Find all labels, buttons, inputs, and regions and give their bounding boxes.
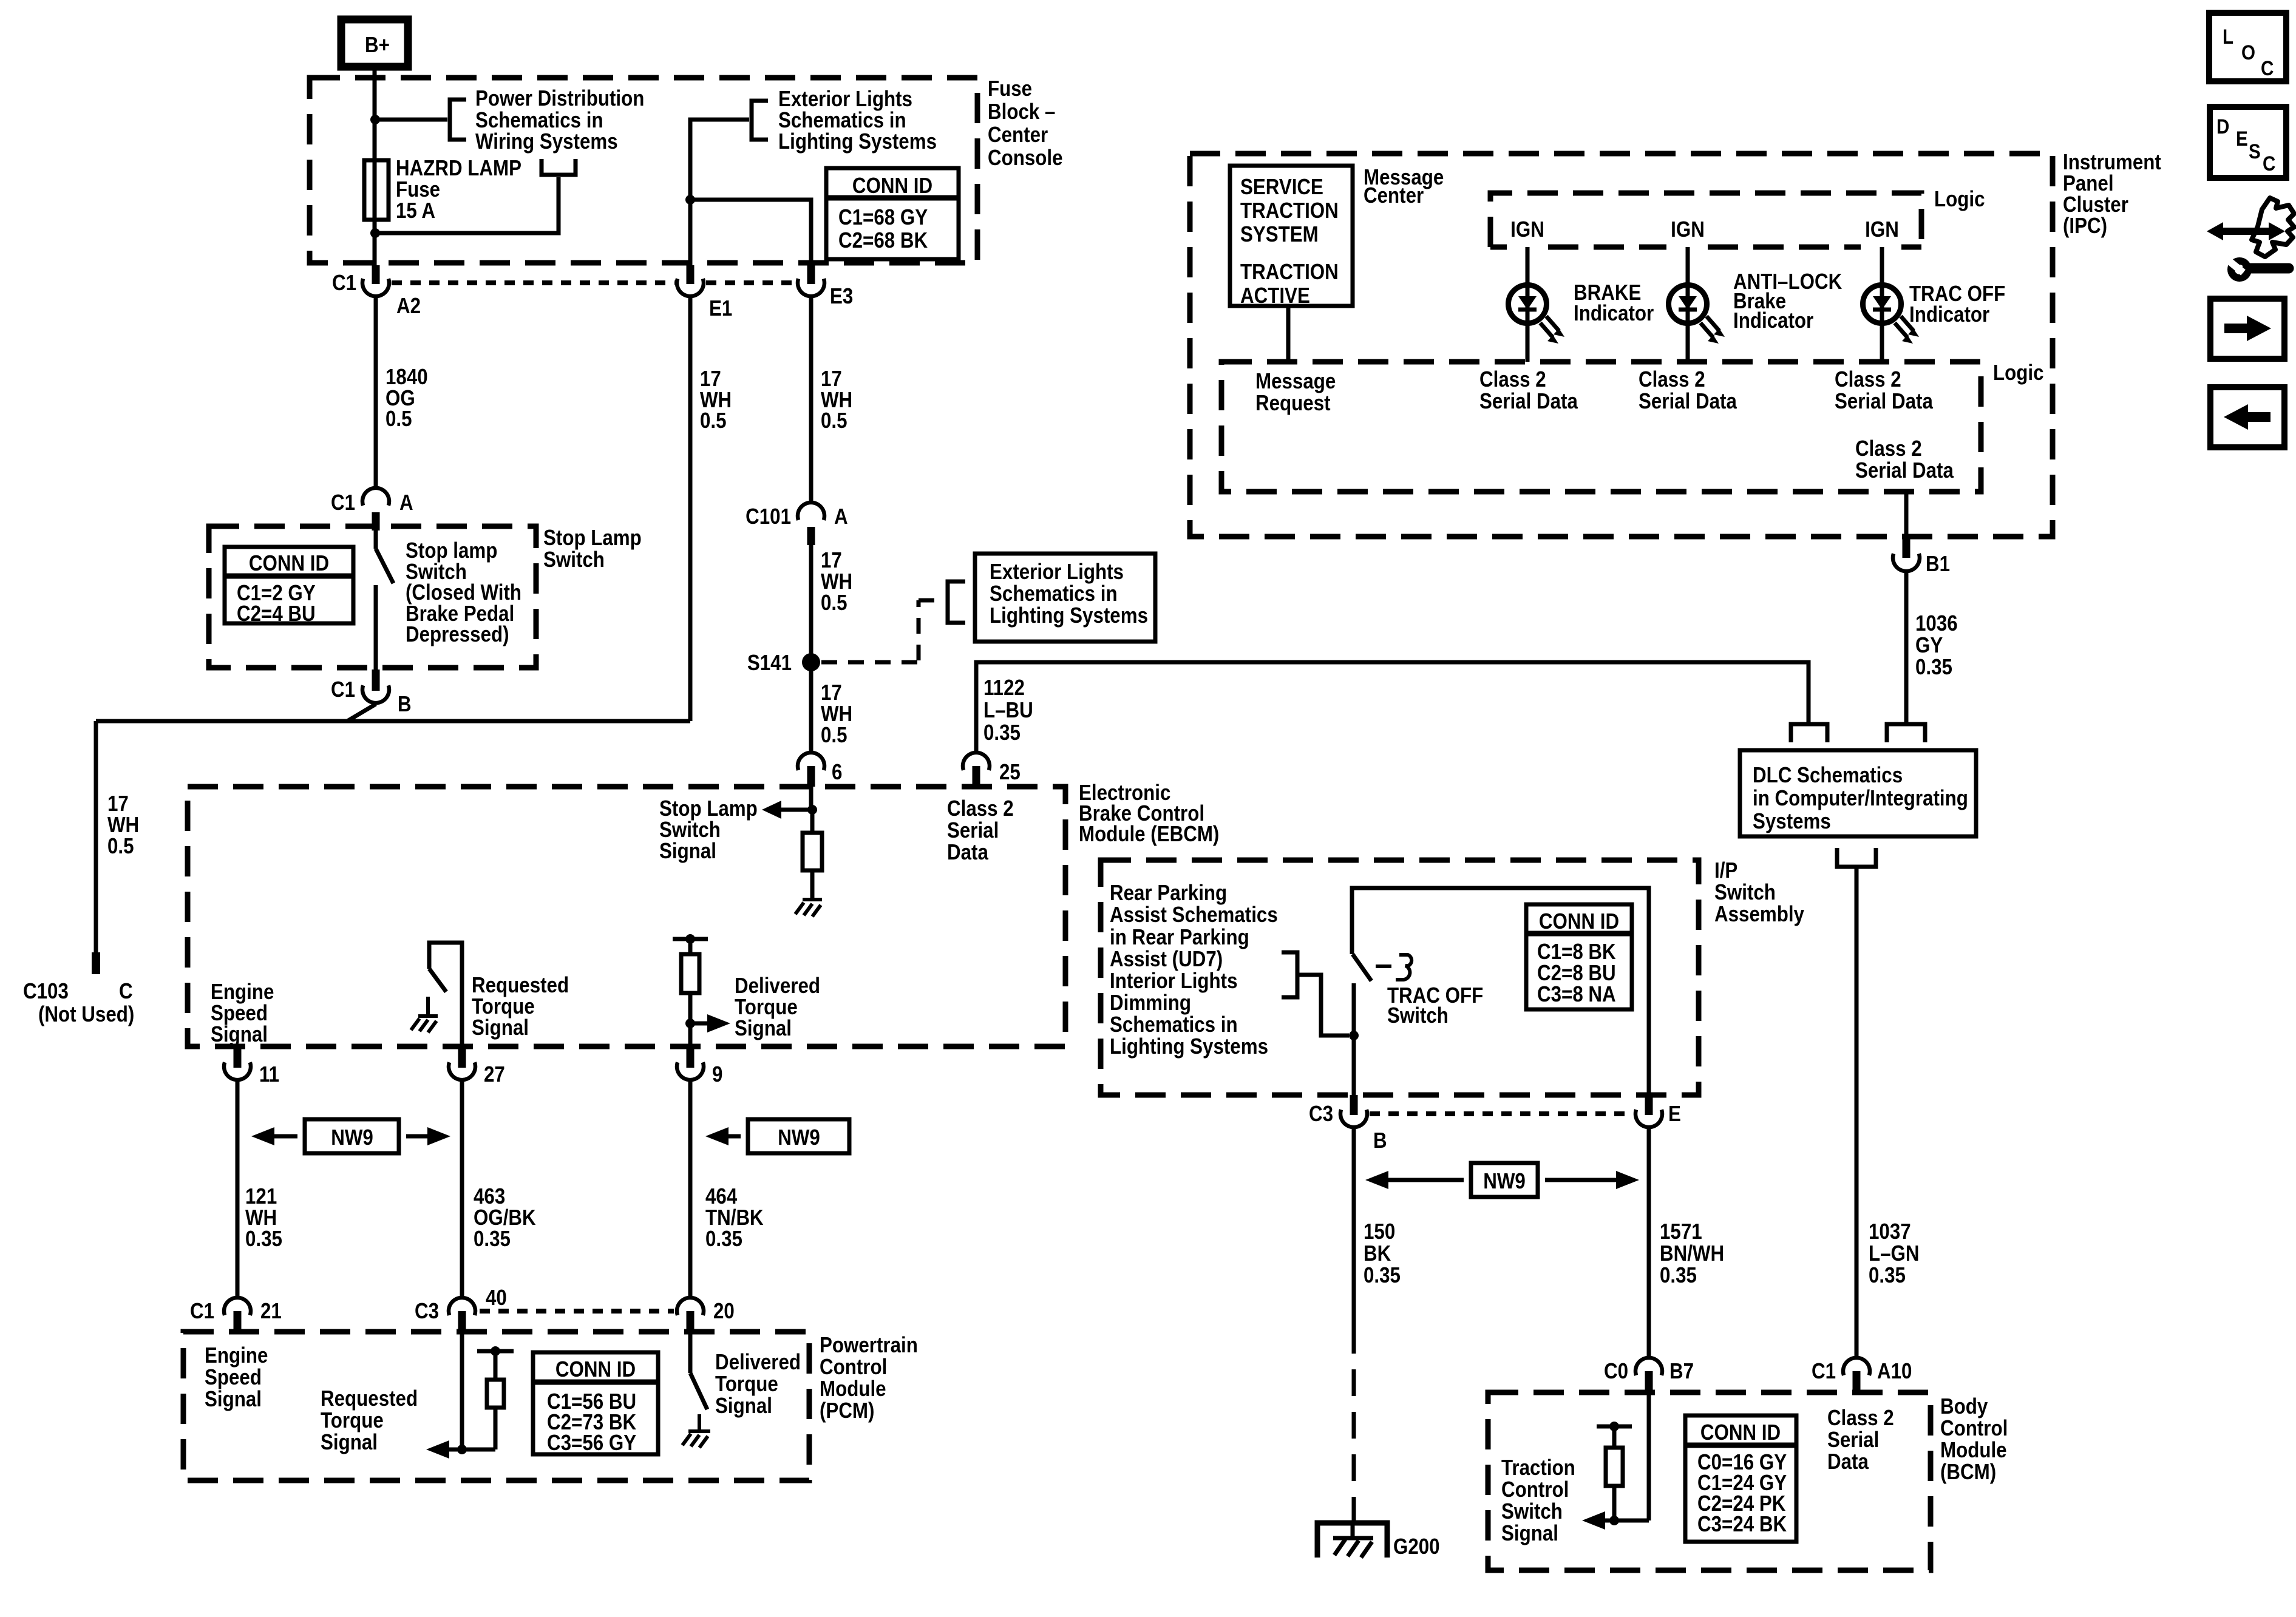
svg-text:G200: G200 <box>1393 1534 1440 1559</box>
svg-text:(IPC): (IPC) <box>2063 214 2107 239</box>
trac off switch blade <box>1353 954 1371 981</box>
label Engine Speed Signal (EBCM) <box>211 980 274 1047</box>
svg-text:9: 9 <box>712 1062 722 1087</box>
connector IPC pin B1 <box>1893 537 1950 577</box>
wire 463 OG/BK pin 27 to PCM 40 <box>460 1081 464 1297</box>
svg-text:Serial Data: Serial Data <box>1855 458 1954 483</box>
svg-text:Module: Module <box>820 1377 886 1402</box>
svg-text:Switch: Switch <box>1714 880 1776 905</box>
svg-text:0.35: 0.35 <box>1915 655 1952 680</box>
label 121 WH 0.35 <box>245 1184 282 1252</box>
label Delivered Torque Signal (EBCM) <box>735 974 820 1041</box>
svg-text:Schematics in: Schematics in <box>990 581 1118 606</box>
I/P switch assembly dashed box <box>1101 860 1699 1095</box>
svg-text:C1: C1 <box>190 1299 214 1324</box>
svg-text:0.35: 0.35 <box>1660 1263 1697 1288</box>
label 1037 L-GN 0.35 <box>1869 1219 1920 1288</box>
wire 17 WH C101 to splice S141 and pin 6 <box>809 545 813 751</box>
svg-text:Interior Lights: Interior Lights <box>1110 969 1238 994</box>
svg-text:C1: C1 <box>331 677 355 702</box>
svg-text:A: A <box>399 490 413 515</box>
bracket DLC top left <box>1791 724 1827 742</box>
splice S141 <box>747 651 820 676</box>
svg-text:C1: C1 <box>1812 1359 1836 1384</box>
svg-text:Wiring Systems: Wiring Systems <box>475 129 618 154</box>
svg-text:C1: C1 <box>332 271 356 296</box>
svg-text:27: 27 <box>484 1062 505 1087</box>
delivered torque switch PCM <box>690 1332 707 1409</box>
label 17 WH 0.5 (C103 wire) <box>107 792 139 859</box>
dotted connector row C1 to E1 <box>392 280 674 285</box>
svg-text:E3: E3 <box>830 284 853 309</box>
svg-text:NW9: NW9 <box>778 1125 820 1150</box>
svg-text:C1: C1 <box>331 490 355 515</box>
svg-text:NW9: NW9 <box>331 1125 373 1150</box>
label 1036 GY 0.35 <box>1915 611 1958 680</box>
connector PCM pin 20 <box>677 1298 735 1332</box>
svg-text:Power Distribution: Power Distribution <box>475 86 644 111</box>
ground requested torque contact <box>411 997 438 1032</box>
svg-text:1036: 1036 <box>1915 611 1958 636</box>
svg-text:IGN: IGN <box>1865 217 1899 242</box>
bracket exterior lights reference (middle) <box>948 581 965 623</box>
svg-text:SYSTEM: SYSTEM <box>1240 222 1319 247</box>
svg-text:0.35: 0.35 <box>983 720 1021 745</box>
arrow delivered torque signal <box>690 1014 730 1032</box>
svg-text:0.5: 0.5 <box>821 408 847 433</box>
svg-text:Data: Data <box>947 840 988 865</box>
label 150 BK 0.35 <box>1364 1219 1401 1288</box>
svg-text:L–GN: L–GN <box>1869 1241 1920 1266</box>
label Class 2 Serial Data (EBCM) <box>947 796 1014 865</box>
bracket DLC bottom <box>1837 848 1876 867</box>
svg-text:O: O <box>2241 41 2255 64</box>
svg-text:B: B <box>1373 1128 1387 1153</box>
connector EBCM pin 27 <box>449 1046 505 1087</box>
svg-text:0.5: 0.5 <box>107 834 134 859</box>
connector I/P pin E <box>1635 1095 1681 1127</box>
connector EBCM pin 25 <box>963 753 1021 787</box>
CONN ID table I/P switch <box>1526 904 1632 1009</box>
connector PCM C1 pin 21 <box>190 1298 282 1332</box>
node junction on B+ feed <box>370 115 380 124</box>
svg-text:Lighting Systems: Lighting Systems <box>778 129 937 154</box>
svg-text:Module: Module <box>1940 1438 2007 1463</box>
svg-text:150: 150 <box>1364 1219 1395 1244</box>
fuse block - center console dashed box <box>310 78 977 263</box>
svg-text:Center: Center <box>1364 183 1424 208</box>
wire 1037 L-GN DLC to A10 <box>1855 867 1859 1357</box>
svg-text:Class 2: Class 2 <box>1479 367 1546 392</box>
trac off switch momentary contact <box>1376 955 1411 980</box>
svg-text:Traction: Traction <box>1501 1456 1575 1480</box>
label Rear Parking Assist Schematics <box>1110 881 1278 1059</box>
svg-text:Torque: Torque <box>715 1372 778 1397</box>
svg-text:Control: Control <box>1940 1416 2008 1441</box>
svg-text:Lighting Systems: Lighting Systems <box>1110 1034 1268 1059</box>
wire 1840 OG from A2 down to C1 A <box>374 297 378 487</box>
svg-text:Signal: Signal <box>211 1022 268 1047</box>
svg-text:S: S <box>2249 140 2261 163</box>
stop lamp switch blade <box>376 531 393 670</box>
lower logic dashed box <box>1221 362 1981 492</box>
label BRAKE Indicator <box>1574 280 1654 326</box>
svg-text:C: C <box>2261 56 2274 80</box>
wire 1036 GY B1 to DLC <box>1904 572 1909 722</box>
label Logic (lower) <box>1993 361 2043 385</box>
svg-text:A2: A2 <box>396 294 421 319</box>
connector EBCM pin 11 <box>224 1046 279 1087</box>
B+ battery feed box <box>341 19 408 67</box>
label 1840 OG 0.5 <box>385 365 428 432</box>
svg-text:Speed: Speed <box>205 1365 262 1390</box>
bracket exterior lights reference <box>752 101 768 140</box>
svg-text:Control: Control <box>1501 1477 1569 1502</box>
wire E1 up to exterior lights bracket <box>690 120 749 265</box>
wire 17 WH down to C103 <box>92 721 100 974</box>
NW9 harness box left <box>251 1119 450 1153</box>
svg-text:Indicator: Indicator <box>1574 301 1654 326</box>
EBCM dashed box <box>188 787 1065 1046</box>
connector EBCM pin 6 <box>798 753 842 787</box>
svg-text:1571: 1571 <box>1660 1219 1702 1244</box>
label Stop lamp Switch (Closed With Brake Pedal Depressed) <box>406 538 521 647</box>
svg-text:C101: C101 <box>746 504 791 529</box>
wire 464 TN/BK pin 9 to PCM 20 <box>688 1081 693 1297</box>
node junction stop lamp signal <box>807 805 817 815</box>
ground delivered torque contact <box>682 1414 710 1448</box>
label Message Center <box>1364 165 1444 208</box>
svg-text:C3=24 BK: C3=24 BK <box>1697 1512 1787 1537</box>
node junction below fuse <box>370 228 380 238</box>
IPC dashed box <box>1190 154 2053 537</box>
svg-text:D: D <box>2216 115 2229 138</box>
svg-text:Class 2: Class 2 <box>1827 1406 1894 1431</box>
label IGN 3 <box>1865 217 1899 242</box>
svg-text:CONN ID: CONN ID <box>249 551 329 576</box>
svg-text:B+: B+ <box>365 33 390 58</box>
svg-text:Class 2: Class 2 <box>1835 367 1901 392</box>
wire below fuse to feed bracket <box>375 177 559 233</box>
svg-text:CONN ID: CONN ID <box>852 174 932 198</box>
CONN ID table fuse block <box>826 168 959 259</box>
svg-text:Signal: Signal <box>472 1015 529 1040</box>
svg-text:Serial Data: Serial Data <box>1479 389 1578 414</box>
label Fuse Block - Center Console <box>988 76 1063 171</box>
svg-text:S141: S141 <box>747 651 792 676</box>
svg-text:Serial: Serial <box>947 818 999 843</box>
svg-text:Console: Console <box>988 146 1063 171</box>
label 1122 L-BU 0.35 <box>983 676 1033 745</box>
label Power Distribution Schematics in Wiring Systems <box>475 86 644 154</box>
svg-text:(PCM): (PCM) <box>820 1398 874 1423</box>
wire 17 WH horizontal run <box>96 719 690 724</box>
svg-text:Switch: Switch <box>1501 1499 1563 1524</box>
svg-text:L–BU: L–BU <box>983 698 1033 723</box>
svg-text:Engine: Engine <box>205 1343 268 1368</box>
wire 1122 L-BU from pin 25 up and right to DLC <box>976 662 1809 751</box>
svg-text:ACTIVE: ACTIVE <box>1240 283 1310 308</box>
svg-text:Signal: Signal <box>205 1387 262 1412</box>
svg-text:IGN: IGN <box>1510 217 1544 242</box>
svg-text:C3: C3 <box>1309 1102 1333 1127</box>
svg-text:Body: Body <box>1940 1394 1988 1419</box>
svg-text:CONN ID: CONN ID <box>555 1357 636 1382</box>
sidebar hand and wrench icon <box>2207 198 2294 278</box>
svg-text:Logic: Logic <box>1993 361 2043 385</box>
label 17 WH 0.5 (above S141) <box>821 548 852 615</box>
svg-text:Delivered: Delivered <box>715 1350 801 1375</box>
svg-text:Requested: Requested <box>321 1386 418 1411</box>
sidebar arrow right box <box>2210 299 2284 359</box>
svg-text:Assist (UD7): Assist (UD7) <box>1110 947 1223 972</box>
bracket rear parking reference <box>1282 952 1297 997</box>
svg-text:in Rear Parking: in Rear Parking <box>1110 925 1249 950</box>
svg-text:C3: C3 <box>415 1299 439 1324</box>
label I/P Switch Assembly <box>1714 858 1804 927</box>
label TRAC OFF Indicator <box>1909 282 2005 327</box>
node junction trac off <box>1349 1031 1359 1040</box>
svg-text:Request: Request <box>1255 391 1331 416</box>
svg-text:DLC Schematics: DLC Schematics <box>1753 763 1903 788</box>
svg-text:Signal: Signal <box>1501 1521 1558 1546</box>
svg-text:Logic: Logic <box>1934 187 1985 212</box>
svg-text:Center: Center <box>988 123 1048 147</box>
svg-text:Schematics in: Schematics in <box>1110 1012 1238 1037</box>
svg-text:Class 2: Class 2 <box>947 796 1014 821</box>
svg-text:Signal: Signal <box>659 839 716 864</box>
svg-text:I/P: I/P <box>1714 858 1737 883</box>
svg-text:TRACTION: TRACTION <box>1240 198 1339 223</box>
connector I/P C3 pin B <box>1309 1095 1387 1153</box>
svg-text:Signal: Signal <box>715 1394 772 1419</box>
svg-text:0.5: 0.5 <box>821 591 847 615</box>
label Stop Lamp Switch <box>543 526 642 572</box>
NW9 harness box right <box>705 1119 849 1153</box>
svg-text:C2=4 BU: C2=4 BU <box>237 602 316 626</box>
label Logic (upper) <box>1934 187 1985 212</box>
svg-text:20: 20 <box>713 1299 735 1324</box>
label Class 2 Serial Data (BCM) <box>1827 1406 1894 1474</box>
wire pin 40 into PCM <box>460 1332 464 1449</box>
svg-text:C: C <box>2263 152 2275 175</box>
svg-text:C2=68 BK: C2=68 BK <box>838 228 928 253</box>
svg-text:C103: C103 <box>23 979 69 1004</box>
DESC sidebar box <box>2210 107 2286 178</box>
svg-text:Signal: Signal <box>321 1430 378 1455</box>
label IGN 1 <box>1510 217 1544 242</box>
svg-text:A10: A10 <box>1877 1359 1912 1384</box>
label IGN 2 <box>1671 217 1705 242</box>
label 17 WH 0.5 (below S141) <box>821 680 852 748</box>
connector C1 pin A2 <box>332 265 421 319</box>
ground EBCM internal <box>795 900 822 917</box>
svg-text:BN/WH: BN/WH <box>1660 1241 1724 1266</box>
svg-text:15 A: 15 A <box>396 198 435 223</box>
svg-text:E: E <box>2236 127 2248 150</box>
label Delivered Torque Signal (PCM) <box>715 1350 801 1419</box>
svg-text:BK: BK <box>1364 1241 1391 1266</box>
svg-text:C0: C0 <box>1604 1359 1628 1384</box>
svg-text:1037: 1037 <box>1869 1219 1911 1244</box>
label C103 C (Not Used) <box>23 979 134 1027</box>
wire bracket to trac off junction <box>1297 975 1349 1036</box>
svg-text:Exterior Lights: Exterior Lights <box>990 560 1124 585</box>
svg-text:11: 11 <box>259 1062 279 1087</box>
wire message box to logic <box>1286 306 1291 362</box>
CONN ID table BCM <box>1685 1415 1796 1542</box>
svg-text:Torque: Torque <box>321 1408 384 1433</box>
bracket feed from power distribution <box>542 159 576 175</box>
svg-text:NW9: NW9 <box>1483 1169 1526 1194</box>
arrow stop lamp switch signal <box>762 801 812 819</box>
sidebar arrow left box <box>2210 387 2284 447</box>
svg-text:C: C <box>119 979 133 1004</box>
resistor EBCM stop lamp input <box>803 810 822 899</box>
label ANTI-LOCK Brake Indicator <box>1733 269 1843 333</box>
connector C101 pin A <box>746 503 847 545</box>
SERVICE TRACTION SYSTEM message box <box>1230 166 1353 308</box>
svg-text:TRACTION: TRACTION <box>1240 260 1339 285</box>
svg-text:Message: Message <box>1255 369 1336 394</box>
label Electronic Brake Control Module (EBCM) <box>1079 781 1219 847</box>
wire trac off switch loop to E <box>1352 888 1649 1095</box>
label 1571 BN/WH 0.35 <box>1660 1219 1724 1288</box>
svg-text:C3=8 NA: C3=8 NA <box>1537 982 1616 1007</box>
CONN ID table PCM <box>533 1352 658 1456</box>
svg-text:Fuse: Fuse <box>988 76 1032 101</box>
arrow traction control switch signal <box>1582 1511 1649 1530</box>
label TRAC OFF Switch <box>1387 983 1483 1028</box>
svg-text:0.35: 0.35 <box>474 1227 511 1252</box>
wire pin 6 into EBCM <box>809 787 813 810</box>
resistor PCM requested torque <box>477 1346 514 1449</box>
svg-text:0.35: 0.35 <box>1869 1263 1906 1288</box>
PCM dashed box <box>183 1332 809 1480</box>
LED indicator BRAKE <box>1509 247 1565 362</box>
arrow requested torque signal <box>426 1440 495 1459</box>
connector C1 pin B <box>331 670 412 717</box>
connector E3 <box>798 265 853 309</box>
requested torque switch EBCM <box>429 943 462 1046</box>
svg-text:(BCM): (BCM) <box>1940 1460 1996 1485</box>
svg-text:(Not Used): (Not Used) <box>38 1002 134 1027</box>
svg-text:L: L <box>2223 25 2233 48</box>
BCM dashed box <box>1488 1392 1931 1570</box>
svg-text:Control: Control <box>820 1355 887 1380</box>
label 17 WH 0.5 (E3 wire) <box>821 367 852 433</box>
svg-text:0.5: 0.5 <box>700 408 727 433</box>
svg-text:Depressed): Depressed) <box>406 622 509 647</box>
wire below trac off switch <box>1352 983 1356 1095</box>
wire diagonal from B to 17 WH run <box>347 704 376 721</box>
connector EBCM pin 9 <box>677 1046 722 1087</box>
label Exterior Lights Schematics in Lighting Systems (fuse block) <box>778 87 937 154</box>
wire 150 BK from C3 B down <box>1352 1128 1356 1327</box>
connector E1 <box>677 265 732 321</box>
svg-text:0.5: 0.5 <box>385 407 412 432</box>
svg-text:SERVICE: SERVICE <box>1240 175 1323 200</box>
connector PCM C3 pin 40 <box>415 1286 507 1332</box>
label Instrument Panel Cluster (IPC) <box>2063 150 2161 239</box>
fuse HAZRD LAMP 15A <box>364 160 389 220</box>
svg-text:in Computer/Integrating: in Computer/Integrating <box>1753 786 1968 811</box>
resistor BCM traction control <box>1597 1422 1632 1520</box>
dotted connector row 40 to 20 <box>480 1309 674 1314</box>
label 463 OG/BK 0.35 <box>474 1184 536 1252</box>
svg-text:0.35: 0.35 <box>1364 1263 1401 1288</box>
svg-text:0.35: 0.35 <box>705 1227 742 1252</box>
svg-text:CONN ID: CONN ID <box>1700 1420 1781 1445</box>
svg-text:Class 2: Class 2 <box>1639 367 1705 392</box>
label Traction Control Switch Signal <box>1501 1456 1575 1546</box>
svg-text:0.5: 0.5 <box>821 723 847 748</box>
svg-text:Powertrain: Powertrain <box>820 1333 918 1358</box>
svg-text:1122: 1122 <box>983 676 1025 700</box>
connector C1 pin A stop lamp switch <box>331 488 413 531</box>
LED indicator TRAC OFF <box>1863 247 1920 362</box>
wire junction to E3 <box>690 200 811 265</box>
wire 17 WH from E3 down to C101 <box>809 297 813 501</box>
label Class 2 Serial Data 2 <box>1639 367 1737 414</box>
svg-text:40: 40 <box>486 1286 507 1310</box>
svg-text:Serial: Serial <box>1827 1428 1879 1453</box>
label Class 2 Serial Data 1 <box>1479 367 1578 414</box>
Exterior Lights Schematics box (middle) <box>975 554 1155 642</box>
LOC sidebar box <box>2209 13 2286 81</box>
svg-text:25: 25 <box>999 760 1021 785</box>
svg-text:A: A <box>834 504 848 529</box>
svg-text:Systems: Systems <box>1753 809 1831 834</box>
wire 1571 BN/WH from E down to C0 B7 <box>1647 1128 1651 1357</box>
label 464 TN/BK 0.35 <box>705 1184 764 1252</box>
label Powertrain Control Module (PCM) <box>820 1333 918 1423</box>
svg-text:Signal: Signal <box>735 1016 792 1041</box>
svg-text:Assembly: Assembly <box>1714 902 1804 927</box>
wire 17 WH from E1 down <box>688 297 693 721</box>
svg-text:Indicator: Indicator <box>1909 302 1989 327</box>
wire B+ down to C1 A2 <box>373 67 377 268</box>
svg-text:E: E <box>1668 1102 1681 1127</box>
svg-text:Module (EBCM): Module (EBCM) <box>1079 822 1219 847</box>
node junction traction control signal <box>1609 1516 1619 1525</box>
svg-text:Dimming: Dimming <box>1110 991 1191 1015</box>
label Requested Torque Signal (EBCM) <box>472 973 569 1040</box>
delivered torque resistor EBCM <box>673 934 708 1046</box>
wire B7 into BCM <box>1647 1392 1651 1520</box>
CONN ID table stop lamp switch <box>225 547 353 626</box>
DLC Schematics box <box>1740 750 1976 836</box>
svg-text:21: 21 <box>260 1299 282 1324</box>
dotted connector row B to E <box>1370 1111 1633 1116</box>
wire 121 WH pin 11 to PCM 21 <box>236 1081 240 1297</box>
svg-text:CONN ID: CONN ID <box>1539 909 1619 934</box>
upper logic dashed box <box>1490 193 1921 247</box>
wire branch to power distribution <box>375 118 447 122</box>
svg-text:Data: Data <box>1827 1449 1869 1474</box>
label 17 WH 0.5 (E1 wire) <box>700 367 732 433</box>
svg-text:Indicator: Indicator <box>1733 308 1813 333</box>
svg-text:0.35: 0.35 <box>245 1227 282 1252</box>
ground G200 <box>1317 1520 1440 1559</box>
svg-text:Switch: Switch <box>1387 1003 1449 1028</box>
NW9 harness box I/P <box>1365 1163 1639 1197</box>
svg-text:Block –: Block – <box>988 100 1055 124</box>
svg-text:GY: GY <box>1915 633 1943 658</box>
bracket power distribution reference <box>450 100 466 140</box>
stop lamp switch dashed box <box>209 526 536 668</box>
node junction on E1 wire <box>685 195 695 205</box>
